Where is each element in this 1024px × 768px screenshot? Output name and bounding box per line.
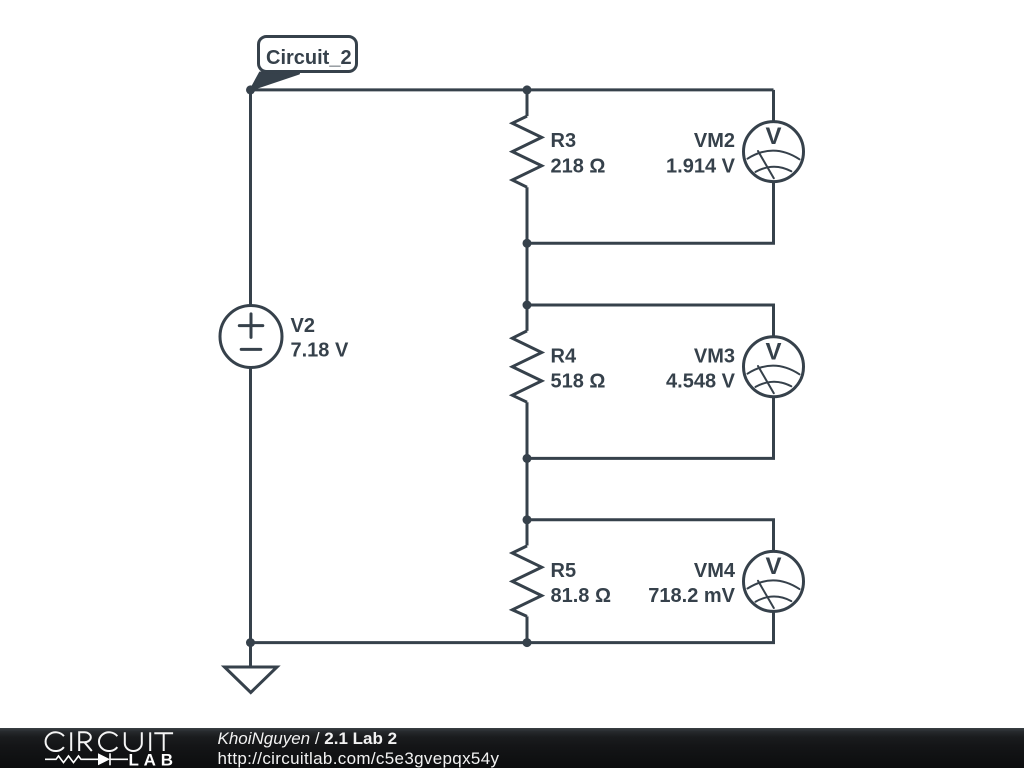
svg-text:V: V: [765, 338, 781, 365]
svg-text:218 Ω: 218 Ω: [551, 156, 606, 178]
svg-text:Circuit_2: Circuit_2: [266, 47, 352, 69]
svg-text:R3: R3: [551, 130, 577, 152]
svg-text:V2: V2: [291, 315, 315, 337]
svg-text:R4: R4: [551, 345, 577, 367]
svg-text:VM4: VM4: [694, 560, 736, 582]
svg-text:R5: R5: [551, 560, 577, 582]
svg-text:1.914 V: 1.914 V: [666, 156, 736, 178]
svg-text:V: V: [765, 553, 781, 580]
svg-text:7.18 V: 7.18 V: [291, 340, 349, 362]
svg-text:VM3: VM3: [694, 345, 735, 367]
svg-text:4.548 V: 4.548 V: [666, 371, 736, 393]
svg-text:V: V: [765, 123, 781, 150]
svg-text:518 Ω: 518 Ω: [551, 371, 606, 393]
svg-text:VM2: VM2: [694, 130, 735, 152]
svg-text:718.2 mV: 718.2 mV: [648, 585, 735, 607]
svg-text:81.8 Ω: 81.8 Ω: [551, 585, 612, 607]
svg-text:LAB: LAB: [129, 751, 174, 768]
